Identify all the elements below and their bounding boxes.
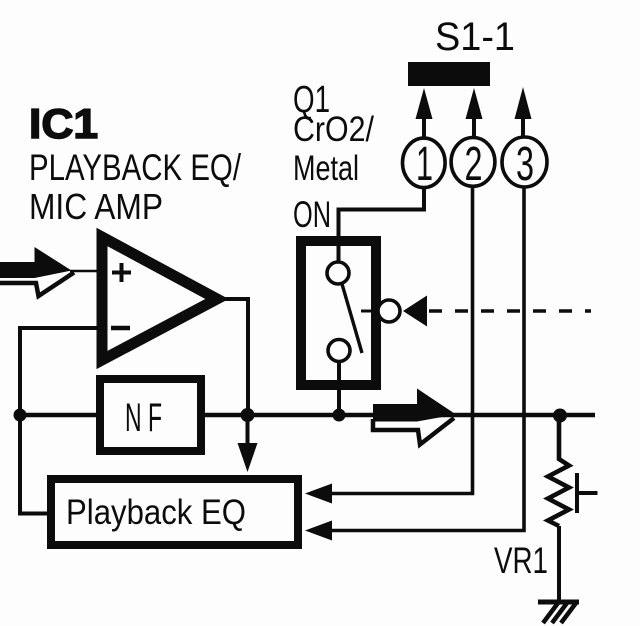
svg-text:CrO2/: CrO2/ [293, 110, 374, 149]
terminal 2 circle [451, 138, 495, 192]
VR1 wiper [577, 473, 598, 513]
node junction VR1 [553, 409, 567, 423]
wire terminal1 to switch [339, 187, 425, 241]
ground [538, 602, 579, 623]
wire op-amp output [217, 299, 248, 415]
svg-text:1: 1 [416, 138, 433, 191]
VR1 resistor [548, 415, 569, 526]
switch top contact [327, 262, 349, 284]
S1-1 contact bar [408, 62, 490, 86]
wire main bus [20, 413, 595, 418]
wire noninverting input [70, 270, 97, 273]
terminal 3 circle [502, 137, 547, 191]
node junction under switch [333, 409, 346, 422]
switch actuator stub [361, 310, 378, 313]
node junction op-amp output [241, 408, 255, 422]
wire terminal 3 to Playback EQ lower [305, 187, 524, 541]
wire into switch top contact [337, 236, 341, 262]
NF box [100, 379, 201, 451]
switch lever [342, 284, 362, 353]
wire VR1 to ground [557, 526, 561, 602]
wire switch bottom to bus [337, 361, 341, 415]
svg-text:2: 2 [465, 138, 483, 191]
op-amp - pin [111, 326, 130, 331]
switch bottom contact [328, 340, 350, 362]
switch actuator contact [378, 300, 400, 322]
node junction left [14, 409, 27, 422]
terminal 3 arrow [515, 87, 532, 137]
svg-text:Playback EQ: Playback EQ [66, 493, 246, 532]
svg-text:N F: N F [125, 396, 162, 440]
wire inverting input feedback [20, 328, 97, 415]
svg-text:VR1: VR1 [494, 540, 548, 581]
op-amp U1 [102, 237, 217, 360]
wire to Playback EQ left [20, 415, 47, 514]
svg-text:Metal: Metal [293, 149, 359, 188]
terminal 1 arrow [416, 88, 433, 138]
svg-text:IC1: IC1 [29, 100, 98, 147]
big signal arrow on bus [373, 389, 456, 445]
svg-text:3: 3 [516, 138, 534, 191]
svg-text:S1-1: S1-1 [435, 15, 515, 59]
switch Q1 box [301, 241, 376, 385]
dashed actuate line with arrow [403, 296, 591, 327]
Playback EQ box [51, 479, 298, 545]
op-amp + pin [112, 263, 131, 282]
svg-text:MIC AMP: MIC AMP [29, 186, 163, 227]
svg-text:PLAYBACK EQ/: PLAYBACK EQ/ [29, 147, 242, 188]
terminal 2 arrow [466, 88, 483, 137]
svg-text:ON: ON [293, 194, 331, 235]
arrow down into Playback EQ [238, 415, 258, 472]
input signal arrow [0, 247, 74, 296]
terminal 1 circle [403, 138, 446, 191]
wire terminal 2 to Playback EQ upper [305, 186, 473, 504]
